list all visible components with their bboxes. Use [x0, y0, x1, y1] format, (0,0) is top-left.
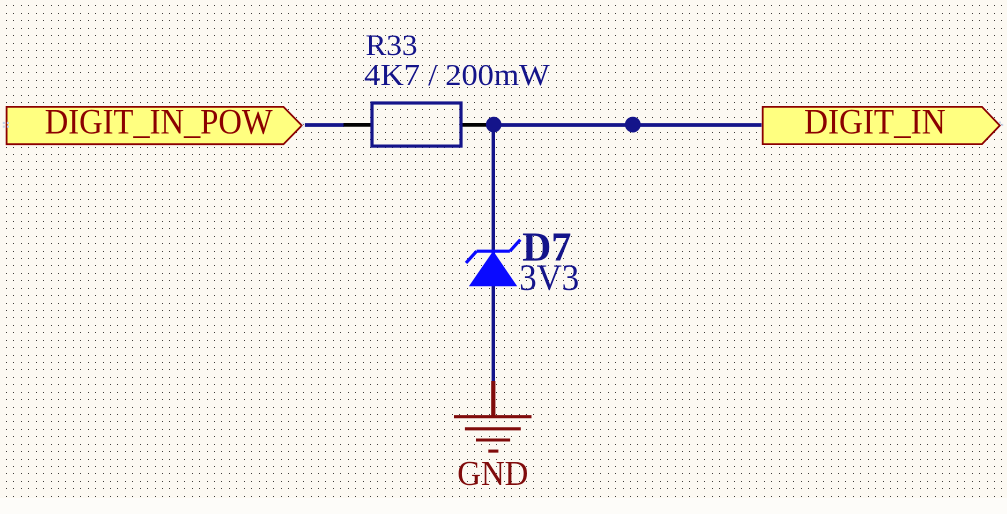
svg-text:GND: GND: [457, 454, 528, 493]
svg-text:DIGIT_IN: DIGIT_IN: [804, 102, 946, 142]
svg-text:3V3: 3V3: [519, 258, 579, 299]
svg-text:DIGIT_IN_POW: DIGIT_IN_POW: [45, 102, 273, 142]
svg-text:4K7 / 200mW: 4K7 / 200mW: [364, 58, 550, 92]
